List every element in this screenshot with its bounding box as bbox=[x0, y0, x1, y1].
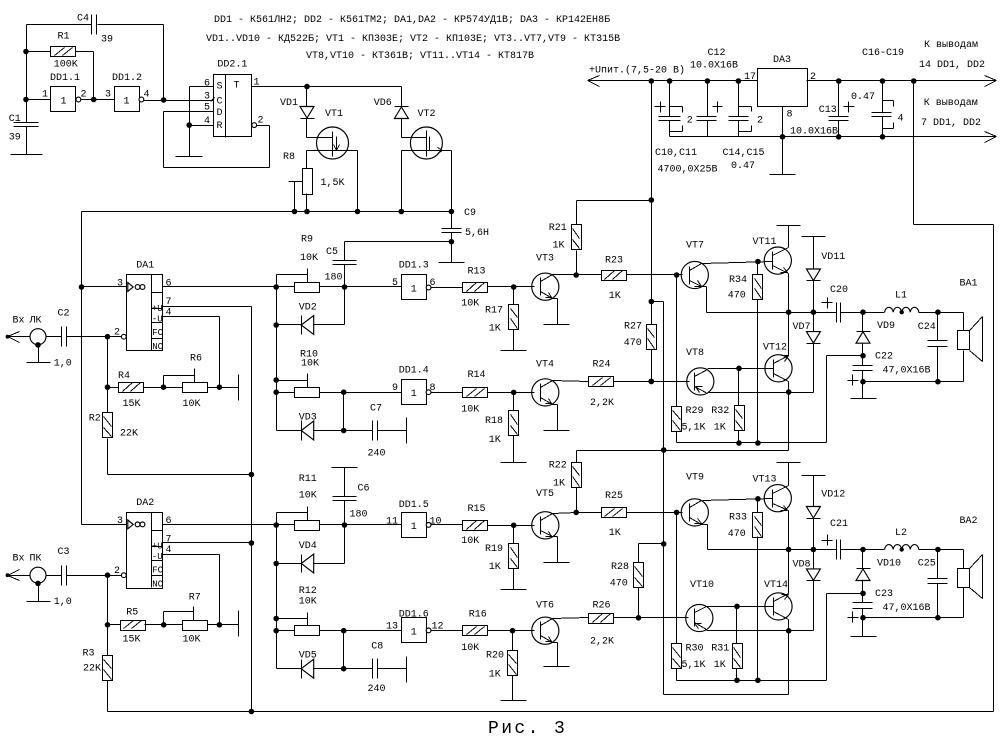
svg-text:VD4: VD4 bbox=[299, 541, 317, 552]
wire: R14 to VT4 base bbox=[488, 390, 535, 396]
wire: R5 leads bbox=[108, 622, 223, 628]
svg-text:10K: 10K bbox=[301, 359, 319, 370]
svg-text:VD6: VD6 bbox=[374, 98, 392, 109]
svg-text:1,0: 1,0 bbox=[54, 597, 72, 608]
wire: VT13 emitter down bbox=[788, 511, 790, 550]
wire: R2 to bus bbox=[108, 474, 252, 476]
ground bbox=[501, 350, 527, 352]
transistor VT8 bbox=[686, 348, 714, 395]
ground bbox=[501, 462, 527, 464]
resistor R16 bbox=[461, 610, 487, 655]
svg-text:VD10: VD10 bbox=[877, 559, 901, 570]
svg-text:R2: R2 bbox=[89, 414, 101, 425]
svg-text:5,1K: 5,1K bbox=[682, 660, 706, 671]
svg-text:R1: R1 bbox=[58, 32, 70, 43]
capacitor C8 bbox=[368, 642, 386, 696]
wire: +9V down right edge bbox=[914, 81, 994, 712]
resistor R21 bbox=[549, 197, 654, 274]
transistor VT10 bbox=[686, 580, 714, 632]
diode VD10 bbox=[856, 550, 901, 594]
node Вх ЛК bbox=[6, 316, 46, 345]
svg-text:10K: 10K bbox=[299, 597, 317, 608]
capacitor C14 C15 bbox=[723, 81, 765, 173]
wire: VD11 to output node bbox=[813, 281, 815, 313]
svg-text:-U: -U bbox=[152, 315, 163, 325]
wire: R11 wiper link bbox=[277, 507, 308, 525]
svg-text:C23: C23 bbox=[875, 589, 893, 600]
wire: VT5 emitter bbox=[553, 537, 558, 563]
svg-text:10K: 10K bbox=[300, 253, 318, 264]
svg-text:1K: 1K bbox=[714, 660, 726, 671]
diode VD7 bbox=[793, 313, 821, 344]
diode VD4 bbox=[277, 541, 317, 573]
svg-text:ЛК: ЛК bbox=[29, 316, 42, 327]
svg-text:180: 180 bbox=[325, 273, 343, 284]
svg-text:1K: 1K bbox=[489, 670, 501, 681]
svg-text:R20: R20 bbox=[486, 651, 504, 662]
resistor R12 bbox=[295, 586, 320, 636]
wire: C8 to ground bbox=[378, 668, 407, 670]
ground bbox=[770, 174, 796, 176]
svg-text:R3: R3 bbox=[83, 649, 95, 660]
svg-text:6: 6 bbox=[204, 79, 210, 90]
resistor R31 bbox=[711, 607, 742, 681]
svg-text:C14,C15: C14,C15 bbox=[723, 148, 765, 159]
wire: DD2.1 pin1 to gates bbox=[252, 84, 402, 107]
resistor R4 bbox=[118, 371, 144, 410]
note: К выводам 14 bbox=[919, 40, 985, 71]
svg-text:180: 180 bbox=[350, 510, 368, 521]
wire: R12 row input bbox=[277, 630, 295, 632]
svg-text:2: 2 bbox=[114, 328, 120, 339]
svg-text:C22: C22 bbox=[875, 352, 893, 363]
wire: DA3 pin8 to ground bbox=[780, 107, 786, 140]
capacitor C6 bbox=[333, 468, 370, 525]
svg-text:R16: R16 bbox=[469, 610, 487, 621]
wire: DD1.3 out bbox=[431, 287, 463, 289]
transistor VT5 bbox=[532, 489, 559, 539]
ground bbox=[544, 666, 570, 668]
svg-text:R23: R23 bbox=[605, 256, 623, 267]
resistor R34 bbox=[728, 262, 763, 445]
power bar bbox=[777, 462, 801, 464]
svg-text:0.47: 0.47 bbox=[851, 92, 875, 103]
node Вх ПК bbox=[6, 554, 46, 584]
resistor R25 bbox=[573, 491, 682, 539]
svg-text:1: 1 bbox=[411, 627, 417, 638]
capacitor C25 bbox=[918, 550, 948, 618]
svg-text:1: 1 bbox=[42, 90, 48, 101]
svg-text:R6: R6 bbox=[190, 354, 202, 365]
svg-text:1: 1 bbox=[411, 389, 417, 400]
inverter DD1.1 bbox=[42, 73, 87, 112]
svg-text:D: D bbox=[217, 108, 223, 119]
note: parts list line 3 bbox=[306, 51, 534, 62]
svg-text:2,2K: 2,2K bbox=[590, 637, 614, 648]
ground bbox=[501, 700, 527, 702]
svg-text:10K: 10K bbox=[183, 635, 201, 646]
svg-text:R32: R32 bbox=[711, 406, 729, 417]
wire: C21 to L2 node bbox=[841, 547, 885, 553]
diode VD2 bbox=[277, 303, 317, 335]
svg-text:R15: R15 bbox=[468, 504, 486, 515]
wire: ch2 bridge output node bbox=[708, 547, 837, 553]
capacitor C5 bbox=[325, 242, 357, 287]
svg-text:R19: R19 bbox=[485, 544, 503, 555]
svg-text:VD11: VD11 bbox=[821, 252, 845, 263]
wire: VT12 collector down bbox=[788, 382, 790, 393]
svg-text:R5: R5 bbox=[126, 608, 138, 619]
wire: R4 leads bbox=[108, 384, 223, 390]
svg-text:R7: R7 bbox=[189, 593, 201, 604]
svg-text:2: 2 bbox=[258, 116, 264, 127]
wire: C4 top feedback run bbox=[27, 25, 164, 101]
inverter DD1.2 bbox=[105, 73, 150, 112]
svg-text:C12: C12 bbox=[708, 48, 726, 59]
wire: C23 node link bbox=[827, 594, 863, 681]
svg-text:5: 5 bbox=[392, 278, 398, 289]
wire: VT11 collector to +U bar bbox=[788, 226, 790, 248]
svg-text:4: 4 bbox=[898, 114, 904, 125]
svg-text:VD9: VD9 bbox=[877, 321, 895, 332]
svg-text:8: 8 bbox=[787, 110, 793, 121]
svg-text:15K: 15K bbox=[123, 635, 141, 646]
svg-text:4700,0Х25В: 4700,0Х25В bbox=[658, 165, 718, 176]
svg-text:VD5: VD5 bbox=[299, 651, 317, 662]
wire: DA2 pin7 to bus bbox=[163, 542, 252, 544]
ground bbox=[406, 418, 408, 444]
svg-text:Вх: Вх bbox=[13, 316, 25, 327]
wire: VT8 collector to VT12 base bbox=[708, 368, 774, 370]
wire: VT7 collector to VT11 base bbox=[703, 259, 773, 265]
svg-text:C21: C21 bbox=[830, 519, 848, 530]
svg-text:DD1.6: DD1.6 bbox=[399, 610, 429, 621]
svg-text:VD12: VD12 bbox=[821, 490, 845, 501]
wire: VT14 emitter up bbox=[788, 550, 790, 594]
wire: VD2 to node bbox=[314, 287, 345, 325]
wire: VT7 emitter bbox=[702, 287, 707, 313]
capacitor C1 bbox=[9, 114, 39, 144]
svg-text:1K: 1K bbox=[553, 241, 565, 252]
svg-text:VT4: VT4 bbox=[536, 360, 554, 371]
ground bbox=[544, 562, 570, 564]
op-amp DA2 bbox=[114, 498, 172, 590]
wire: input ground tap bbox=[35, 342, 41, 362]
inductor L2 bbox=[885, 528, 919, 552]
transistor VT2 bbox=[402, 109, 452, 159]
wire: DA2 pin3 bbox=[82, 524, 127, 526]
ground bbox=[501, 589, 527, 591]
wire: VT9 emitter bbox=[702, 525, 708, 550]
svg-text:DD1.5: DD1.5 bbox=[399, 500, 429, 511]
svg-text:1: 1 bbox=[411, 285, 417, 296]
svg-text:R9: R9 bbox=[301, 235, 313, 246]
svg-text:47,0Х16В: 47,0Х16В bbox=[883, 366, 931, 377]
svg-text:NC: NC bbox=[152, 579, 163, 589]
wire: +U dropper bbox=[649, 81, 655, 305]
resistor R30 bbox=[672, 513, 706, 681]
svg-text:FC: FC bbox=[152, 328, 163, 338]
svg-text:R33: R33 bbox=[729, 513, 747, 524]
ground bbox=[544, 430, 570, 432]
svg-text:1K: 1K bbox=[489, 324, 501, 335]
svg-text:Вх: Вх bbox=[13, 554, 25, 565]
inductor L1 bbox=[885, 291, 919, 315]
diode VD6 bbox=[374, 98, 409, 119]
svg-text:22K: 22K bbox=[120, 429, 138, 440]
svg-text:C24: C24 bbox=[918, 322, 936, 333]
resistor R32 bbox=[711, 366, 744, 443]
svg-text:VT8: VT8 bbox=[686, 348, 704, 359]
wire: C22 to ground bbox=[862, 382, 864, 399]
svg-text:C5: C5 bbox=[326, 247, 338, 258]
diode VD8 bbox=[793, 550, 821, 581]
svg-text:2: 2 bbox=[757, 116, 763, 127]
svg-text:39: 39 bbox=[9, 133, 21, 144]
svg-text:13: 13 bbox=[386, 622, 398, 633]
svg-text:R27: R27 bbox=[624, 322, 642, 333]
wire: VT1 drain to rail bbox=[355, 151, 361, 215]
wire: C9 to C5 bbox=[345, 241, 452, 243]
svg-text:VT14: VT14 bbox=[764, 580, 788, 591]
capacitor C21 bbox=[822, 519, 849, 560]
capacitor C2 bbox=[54, 309, 72, 370]
resistor R8 bbox=[283, 152, 345, 195]
svg-text:L2: L2 bbox=[895, 528, 907, 539]
wire: DA3 output rail bbox=[807, 76, 997, 87]
svg-text:VT8,VT10 - КТ361В; VT11..VT14: VT8,VT10 - КТ361В; VT11..VT14 - КТ817В bbox=[306, 51, 534, 62]
svg-text:240: 240 bbox=[368, 684, 386, 695]
svg-text:R13: R13 bbox=[468, 267, 486, 278]
wire: DD2.1 D feedback loop bbox=[164, 112, 270, 168]
svg-text:VT6: VT6 bbox=[536, 601, 554, 612]
capacitor C13 bbox=[790, 81, 855, 138]
wire: R10 wiper link bbox=[277, 374, 308, 388]
wire: DD1.6 out bbox=[431, 630, 463, 632]
svg-text:R17: R17 bbox=[485, 306, 503, 317]
resistor R26 bbox=[553, 601, 689, 648]
svg-text:R8: R8 bbox=[283, 152, 295, 163]
note: К выводам 7 bbox=[921, 98, 981, 129]
svg-text:4: 4 bbox=[144, 90, 150, 101]
svg-text:VT1: VT1 bbox=[325, 109, 343, 120]
svg-text:DD1.3: DD1.3 bbox=[399, 261, 429, 272]
svg-text:1,5K: 1,5K bbox=[321, 178, 345, 189]
svg-text:C7: C7 bbox=[370, 404, 382, 415]
transistor VT1 bbox=[317, 109, 358, 159]
svg-text:3: 3 bbox=[117, 516, 123, 527]
ground bbox=[544, 324, 570, 326]
wire: VT4 collector bbox=[553, 381, 589, 382]
wire: input ground tap bbox=[35, 581, 41, 602]
power bar bbox=[802, 236, 826, 238]
capacitor C16-C19 bbox=[851, 48, 904, 137]
wire: ch2 lower node to feed line bbox=[664, 631, 789, 695]
svg-text:2,2K: 2,2K bbox=[590, 398, 614, 409]
wire: DA1 pin7 to bus bbox=[163, 307, 255, 712]
svg-text:R: R bbox=[217, 121, 223, 132]
svg-text:2: 2 bbox=[810, 72, 816, 83]
svg-text:DD1.4: DD1.4 bbox=[399, 366, 429, 377]
svg-text:DA3: DA3 bbox=[773, 55, 791, 66]
ground bbox=[27, 601, 51, 603]
wire: VD1 to VT1 gate bbox=[307, 119, 333, 138]
wire: C2 to DA1 pin2 bbox=[67, 334, 122, 340]
svg-text:VT5: VT5 bbox=[536, 489, 554, 500]
transistor VT12 bbox=[763, 342, 792, 382]
wire: VT10 collector to VT14 base bbox=[707, 604, 774, 610]
ground bbox=[406, 657, 408, 683]
wire: VT13 collector to bar bbox=[788, 463, 790, 486]
wire: +U rail bbox=[588, 78, 758, 84]
resistor R10 bbox=[295, 350, 320, 398]
diode VD1 bbox=[280, 87, 315, 119]
resistor R5 bbox=[121, 608, 146, 646]
svg-text:VD7: VD7 bbox=[793, 322, 811, 333]
resistor R20 bbox=[486, 631, 518, 701]
svg-text:10K: 10K bbox=[299, 491, 317, 502]
resistor R17 bbox=[485, 287, 519, 351]
ground bbox=[11, 154, 43, 156]
svg-text:14 DD1, DD2: 14 DD1, DD2 bbox=[919, 60, 985, 71]
ground bbox=[439, 262, 465, 264]
capacitor C23 bbox=[848, 589, 931, 623]
inverter DD1.4 bbox=[392, 366, 436, 405]
svg-text:DD1.2: DD1.2 bbox=[112, 73, 142, 84]
wire: R24 to VT8 base bbox=[614, 379, 690, 385]
svg-text:К выводам: К выводам bbox=[924, 40, 978, 51]
wire: VT14 collector down bbox=[788, 620, 790, 631]
svg-text:C3: C3 bbox=[58, 547, 70, 558]
diode VD3 bbox=[277, 413, 317, 441]
ground bbox=[851, 636, 877, 638]
svg-text:R12: R12 bbox=[299, 586, 317, 597]
wire: DA1 pin2 node down bbox=[105, 337, 111, 391]
svg-text:470: 470 bbox=[610, 579, 628, 590]
note: parts list line 2 bbox=[206, 34, 620, 45]
wire: R8 side tap to rail bbox=[289, 182, 303, 215]
wire: VT11 emitter down bbox=[788, 274, 790, 313]
svg-text:T: T bbox=[234, 81, 240, 92]
ground bbox=[851, 398, 877, 400]
svg-text:3: 3 bbox=[204, 92, 210, 103]
resistor R14 bbox=[461, 370, 487, 416]
svg-text:R4: R4 bbox=[118, 371, 130, 382]
wire: oscillator bottom rail bbox=[79, 212, 452, 525]
svg-text:9: 9 bbox=[392, 383, 398, 394]
svg-text:VD2: VD2 bbox=[299, 303, 317, 314]
wire: DD1.2 to DD2.1 pin C bbox=[144, 97, 214, 103]
svg-text:VT7: VT7 bbox=[686, 241, 704, 252]
svg-text:R22: R22 bbox=[549, 461, 567, 472]
resistor R15 bbox=[461, 504, 487, 547]
svg-text:100K: 100K bbox=[54, 60, 78, 71]
wire: ch1 left node vertical bbox=[273, 287, 279, 431]
resistor R27 bbox=[624, 302, 657, 385]
wire: R29 R32 R34 bottom line bbox=[677, 440, 827, 446]
svg-text:1: 1 bbox=[124, 97, 130, 108]
wire: R7 wiper link bbox=[164, 607, 194, 625]
resistor R23 bbox=[577, 256, 683, 303]
wire: R6 to ground bbox=[208, 387, 239, 389]
svg-text:+Uпит.(7,5-20 В): +Uпит.(7,5-20 В) bbox=[589, 65, 685, 77]
wire: DA1 pin6 to R9 bbox=[163, 284, 295, 290]
node R9 output bbox=[320, 284, 402, 290]
diode VD5 bbox=[277, 651, 317, 679]
ground bbox=[238, 375, 240, 401]
svg-text:VT10: VT10 bbox=[690, 580, 714, 591]
svg-text:1K: 1K bbox=[489, 435, 501, 446]
svg-text:6: 6 bbox=[166, 516, 172, 527]
svg-text:2: 2 bbox=[114, 566, 120, 577]
svg-text:Рис. 3: Рис. 3 bbox=[488, 719, 567, 739]
resistor R24 bbox=[589, 360, 615, 410]
svg-text:VD3: VD3 bbox=[299, 413, 317, 424]
wire: VT12 emitter up bbox=[788, 313, 790, 356]
capacitor C22 bbox=[848, 352, 931, 386]
wire: DA1 pin3 bbox=[82, 286, 127, 288]
svg-text:C16-C19: C16-C19 bbox=[862, 48, 904, 59]
wire: C23 to ground bbox=[862, 618, 864, 637]
wire: C20 to L1 node bbox=[841, 309, 885, 315]
svg-text:R26: R26 bbox=[593, 601, 611, 612]
svg-text:240: 240 bbox=[368, 449, 386, 460]
svg-text:R28: R28 bbox=[611, 562, 629, 573]
resistor R7 bbox=[183, 593, 208, 646]
wire: ch1 bridge output node bbox=[707, 309, 837, 315]
svg-text:10K: 10K bbox=[461, 405, 479, 416]
svg-text:17: 17 bbox=[744, 72, 756, 83]
svg-text:1K: 1K bbox=[489, 562, 501, 573]
wire: left node vertical bbox=[23, 25, 29, 123]
wire: VT10 emitter line bbox=[707, 628, 814, 634]
svg-text:DD1 - К561ЛН2; DD2 - К561ТМ2;: DD1 - К561ЛН2; DD2 - К561ТМ2; DA1,DA2 - … bbox=[214, 15, 610, 26]
wire: DA1 pin4 down bbox=[163, 317, 220, 388]
svg-text:BA1: BA1 bbox=[960, 279, 978, 290]
svg-text:470: 470 bbox=[728, 291, 746, 302]
svg-text:10.0Х16В: 10.0Х16В bbox=[690, 61, 738, 72]
power bar bbox=[802, 475, 826, 477]
svg-text:0.47: 0.47 bbox=[731, 161, 755, 172]
svg-text:3: 3 bbox=[117, 279, 123, 290]
wire: lower node to R22 line bbox=[788, 393, 790, 451]
wire: VT2 drain to rail bbox=[449, 151, 455, 215]
svg-text:VD1: VD1 bbox=[280, 98, 298, 109]
transistor VT4 bbox=[532, 360, 559, 407]
wire: input to C3 bbox=[8, 575, 62, 577]
diode VD11 bbox=[806, 237, 845, 281]
svg-text:7: 7 bbox=[166, 535, 172, 546]
flip-flop DD2.1 bbox=[204, 60, 264, 138]
svg-text:5,6Н: 5,6Н bbox=[465, 228, 489, 239]
node R10 output bbox=[320, 389, 402, 430]
inverter DD1.6 bbox=[386, 610, 444, 643]
wire: input to C2 bbox=[8, 336, 62, 338]
svg-text:NC: NC bbox=[152, 342, 163, 352]
resistor R28 bbox=[610, 544, 664, 621]
svg-text:+U: +U bbox=[152, 541, 163, 551]
inverter DD1.3 bbox=[392, 261, 436, 300]
svg-text:VT2: VT2 bbox=[418, 109, 436, 120]
resistor R3 bbox=[83, 625, 113, 712]
svg-text:2: 2 bbox=[687, 116, 693, 127]
resistor R33 bbox=[728, 499, 763, 681]
svg-text:C10,C11: C10,C11 bbox=[655, 148, 697, 159]
svg-text:10K: 10K bbox=[461, 536, 479, 547]
wire: DD2.1 S,R to ground bbox=[186, 87, 213, 157]
svg-text:2: 2 bbox=[81, 90, 87, 101]
svg-text:VT12: VT12 bbox=[763, 342, 787, 353]
